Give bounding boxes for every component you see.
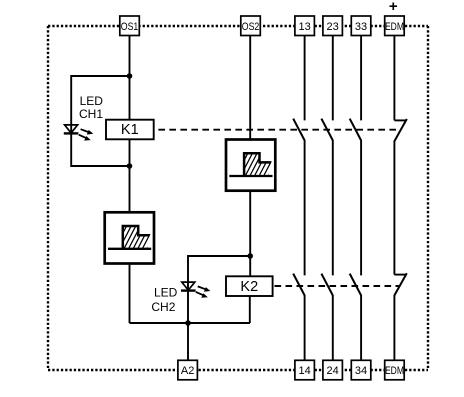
LED CH1 diode <box>64 125 94 141</box>
svg-text:OS1: OS1 <box>121 21 139 33</box>
mechanical link from K2 (dashed) <box>275 285 401 287</box>
svg-text:14: 14 <box>299 365 311 377</box>
terminal 34 <box>351 360 371 380</box>
contact 33-34 lower (K2, NO) <box>350 274 361 361</box>
mechanical link from K1 (dashed) <box>158 129 400 131</box>
svg-text:33: 33 <box>355 21 367 33</box>
terminal 24 <box>323 360 343 380</box>
svg-text:34: 34 <box>355 365 367 377</box>
terminal 33 <box>351 16 371 36</box>
wire OS1 vertical chain <box>129 36 131 324</box>
svg-text:A2: A2 <box>181 365 194 377</box>
svg-text:13: 13 <box>299 21 311 33</box>
wire bottom rail <box>130 322 251 324</box>
junction at LED-CH1 bottom <box>127 163 133 169</box>
enclosure outline right (dotted) <box>427 26 429 370</box>
svg-text:CH2: CH2 <box>151 300 175 314</box>
svg-text:OS2: OS2 <box>242 21 260 33</box>
wire OS2 vertical chain <box>249 36 251 278</box>
relay coil K2 <box>226 276 273 296</box>
terminal OS2 <box>241 16 260 36</box>
contact 23-24 upper (K1, NO) <box>321 36 332 276</box>
svg-text:K2: K2 <box>240 279 258 295</box>
enclosure outline bottom (dotted) <box>48 369 428 371</box>
terminal EDM top <box>385 16 405 36</box>
contact EDM upper (K1, NC) <box>394 36 406 275</box>
wire LED CH1 branch loop <box>71 76 129 166</box>
relay coil K1 <box>106 120 154 140</box>
wire A2 drop <box>187 323 189 361</box>
svg-text:LED: LED <box>80 94 104 108</box>
contact EDM lower (K2, NC) <box>394 273 406 361</box>
pulse-monitor block channel 2 <box>226 140 281 191</box>
contact 23-24 lower (K2, NO) <box>321 274 332 361</box>
terminal 14 <box>295 360 315 380</box>
wire LED CH2 branch loop <box>188 256 250 323</box>
enclosure outline left (dotted) <box>47 26 49 370</box>
contact 33-34 upper (K1, NO) <box>350 36 361 276</box>
enclosure outline top (dotted) <box>48 25 428 27</box>
svg-text:LED: LED <box>154 286 178 300</box>
pulse-monitor block channel 1 <box>105 212 160 263</box>
svg-text:+: + <box>389 0 398 15</box>
junction at OS1/LED-CH1 top <box>127 73 133 79</box>
svg-text:24: 24 <box>327 365 339 377</box>
terminal 13 <box>295 16 315 36</box>
wire K2 bottom <box>249 296 251 323</box>
svg-text:EDM: EDM <box>385 21 404 33</box>
terminal 23 <box>323 16 343 36</box>
svg-text:K1: K1 <box>121 122 139 138</box>
svg-text:CH1: CH1 <box>79 107 103 121</box>
junction at OS2/LED-CH2 top <box>247 253 253 259</box>
junction at bottom rail / A2 <box>185 320 191 326</box>
contact 13-14 lower (K2, NO) <box>293 274 304 361</box>
terminal EDM bottom <box>385 360 405 380</box>
svg-text:23: 23 <box>327 21 339 33</box>
LED CH2 diode <box>181 282 210 298</box>
svg-text:EDM: EDM <box>385 365 404 377</box>
contact 13-14 upper (K1, NO) <box>293 36 304 276</box>
terminal OS1 <box>120 16 140 36</box>
terminal A2 <box>178 360 198 380</box>
